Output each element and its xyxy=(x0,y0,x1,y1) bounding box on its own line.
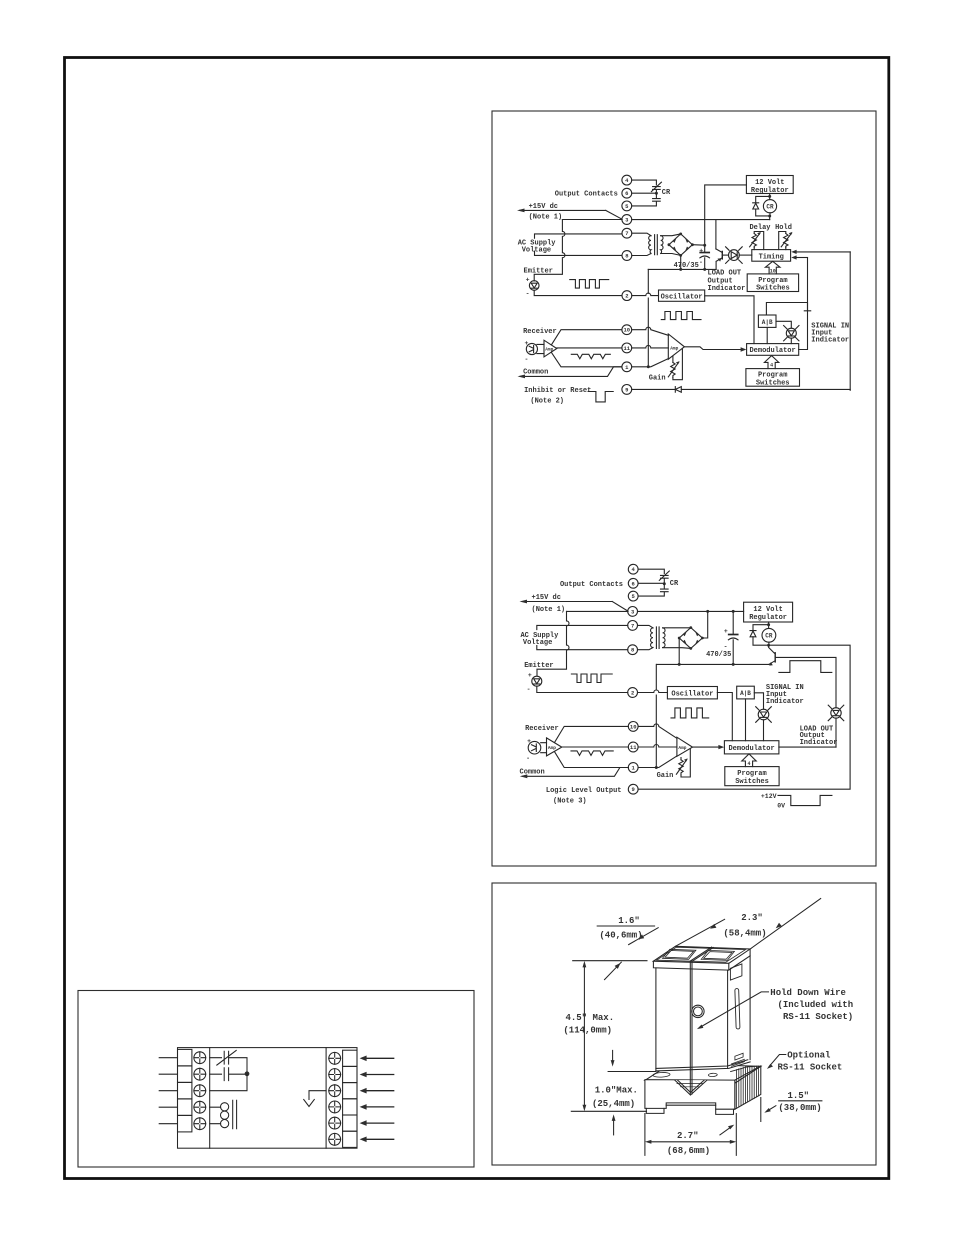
right terminal cell 1 xyxy=(343,1050,357,1066)
svg-text:Program: Program xyxy=(737,770,766,778)
svg-text:2: 2 xyxy=(625,293,628,300)
terminal 6 xyxy=(622,188,632,198)
Program Switches block 3 xyxy=(725,767,779,787)
wire left bus 2 xyxy=(655,664,658,769)
wire receiver outputs 2 xyxy=(555,726,629,767)
svg-text:8: 8 xyxy=(625,253,629,260)
svg-text:Program: Program xyxy=(758,277,787,285)
screw terminal L3 xyxy=(194,1085,206,1097)
potentiometer Gain xyxy=(668,348,682,379)
label CR xyxy=(662,189,671,197)
wire regulator to relay coil xyxy=(768,194,771,200)
emitter waveform 2 xyxy=(571,674,612,683)
hold down wire over top xyxy=(691,947,714,961)
label Receiver xyxy=(525,725,559,733)
wire common with arrow xyxy=(518,367,622,379)
wire amp to demodulator with arrow xyxy=(684,347,746,352)
terminal 10 xyxy=(628,722,638,732)
svg-text:Demodulator: Demodulator xyxy=(749,347,795,355)
socket base top face xyxy=(645,1064,761,1084)
wire +15V with arrow xyxy=(520,600,629,612)
dim 2.3 xyxy=(675,899,820,950)
svg-text:A|B: A|B xyxy=(740,690,751,697)
svg-text:RS-11 Socket: RS-11 Socket xyxy=(778,1062,843,1072)
svg-text:Voltage: Voltage xyxy=(523,639,552,647)
label 1.5 (38,0mm) xyxy=(778,1091,821,1113)
svg-text:Optional: Optional xyxy=(787,1051,831,1061)
module front face xyxy=(653,961,728,1071)
label Logic Level Output xyxy=(546,787,622,806)
ground symbol xyxy=(304,1091,326,1107)
dim 2.7 xyxy=(645,1114,736,1156)
svg-text:(68,6mm): (68,6mm) xyxy=(667,1146,710,1156)
wire amp to demodulator 2 with arrow xyxy=(693,745,725,749)
svg-text:Output Contacts: Output Contacts xyxy=(555,191,618,199)
svg-text:1.6": 1.6" xyxy=(618,916,640,926)
op-amp Amp3 xyxy=(541,738,562,756)
bridge rectifier 2 xyxy=(678,626,704,650)
LED SIGNAL IN indicator 2 xyxy=(754,693,771,741)
+15V dc net label xyxy=(529,203,563,222)
wire receiver outputs xyxy=(552,330,622,367)
A|B select block 2 xyxy=(737,686,755,699)
svg-text:10: 10 xyxy=(630,723,637,730)
svg-text:Indicator: Indicator xyxy=(800,739,838,747)
svg-text:10: 10 xyxy=(770,268,776,274)
input arrow 2 xyxy=(360,1072,394,1078)
svg-text:Regulator: Regulator xyxy=(749,614,787,622)
panel box: block diagram (relay output model) xyxy=(492,111,876,866)
svg-text:Gain: Gain xyxy=(657,772,674,780)
svg-text:5: 5 xyxy=(625,203,629,210)
terminal 2 xyxy=(628,688,638,698)
potentiometer Hold xyxy=(779,232,793,250)
svg-text:9: 9 xyxy=(625,386,628,393)
terminal 9 xyxy=(628,784,638,794)
leader Optional RS-11 Socket xyxy=(767,1055,786,1069)
svg-text:Oscillator: Oscillator xyxy=(671,690,713,698)
+15V dc net label xyxy=(532,594,566,614)
wire demodulator right to indicator chain xyxy=(779,746,836,748)
svg-text:+: + xyxy=(699,248,703,255)
wire oscillator to demodulator xyxy=(705,296,754,344)
terminal 5 xyxy=(628,591,638,601)
screw terminal R5 xyxy=(329,1117,341,1129)
svg-text:(Included with: (Included with xyxy=(778,1000,854,1010)
input arrow 5 xyxy=(360,1120,394,1126)
label AC Supply Voltage xyxy=(520,632,559,647)
label Output Contacts xyxy=(560,581,623,589)
wire T10 T11 T1 to amp 2 xyxy=(638,724,677,768)
phototransistor receiver 2 xyxy=(526,738,541,762)
module top window left xyxy=(663,949,696,959)
left terminal cell 3 xyxy=(178,1082,192,1099)
LED emitter E1 xyxy=(526,276,539,297)
screw terminal L5 xyxy=(194,1118,206,1130)
oscillator waveform xyxy=(661,312,701,320)
svg-text:Indicator: Indicator xyxy=(708,285,746,293)
svg-text:Hold Down Wire: Hold Down Wire xyxy=(770,988,846,998)
svg-text:(Note 1): (Note 1) xyxy=(532,606,566,614)
A|B select block xyxy=(758,315,776,327)
svg-text:CR: CR xyxy=(670,580,679,588)
label Gain 2 xyxy=(657,772,674,780)
terminal 9 xyxy=(622,385,632,395)
svg-text:3: 3 xyxy=(625,217,629,224)
screw terminal L1 xyxy=(194,1052,206,1064)
wire base to indicator xyxy=(775,657,836,707)
terminal 11 xyxy=(622,343,632,353)
svg-text:+: + xyxy=(724,628,728,635)
wire emitter to T2 xyxy=(537,686,628,692)
relay contact NO internal xyxy=(210,1068,245,1081)
wire T8 to transformer xyxy=(632,254,651,256)
label 2.7 (68,6mm) xyxy=(667,1131,710,1156)
wire bus to emitter xyxy=(537,611,569,676)
wire T4 to contact xyxy=(638,569,664,573)
label Hold Down Wire xyxy=(770,988,853,1022)
svg-text:470/35: 470/35 xyxy=(706,651,731,659)
terminal 4 xyxy=(628,564,638,574)
panel box: dimension drawing xyxy=(492,883,876,1165)
junction dot xyxy=(663,582,666,585)
svg-text:7: 7 xyxy=(631,622,634,629)
LED LOAD OUT indicator 2 xyxy=(828,705,844,747)
Demodulator block 2 xyxy=(724,741,779,754)
wire T2 to oscillator 2 xyxy=(638,690,668,693)
svg-text:9: 9 xyxy=(632,786,635,793)
input arrow 6 xyxy=(360,1137,394,1143)
wire right bus B to demodulator xyxy=(799,258,808,350)
junction dot xyxy=(245,1071,250,1076)
svg-text:-: - xyxy=(527,686,531,693)
label AC Supply Voltage xyxy=(518,240,557,255)
svg-text:Emitter: Emitter xyxy=(524,662,553,670)
svg-text:470/35: 470/35 xyxy=(674,262,699,270)
screw terminal R1 xyxy=(329,1052,341,1064)
module right face xyxy=(729,949,750,1068)
terminal 7 xyxy=(622,228,632,238)
module side latch xyxy=(732,1053,745,1066)
12 Volt Regulator U1 xyxy=(746,176,793,195)
wire transformer to bridge top xyxy=(661,234,681,236)
svg-text:CR: CR xyxy=(662,189,671,197)
svg-text:Amp: Amp xyxy=(548,745,556,751)
logic level waveform xyxy=(761,793,832,810)
LED LOAD OUT indicator xyxy=(722,247,752,264)
svg-text:1: 1 xyxy=(632,765,636,772)
svg-text:11: 11 xyxy=(623,345,630,352)
svg-text:Output Contacts: Output Contacts xyxy=(560,581,623,589)
screw terminal L4 xyxy=(194,1101,206,1113)
op-amp Amp1 xyxy=(537,340,557,357)
svg-text:(25,4mm): (25,4mm) xyxy=(592,1099,635,1109)
screw terminal R2 xyxy=(329,1069,341,1081)
svg-text:Common: Common xyxy=(523,368,548,376)
terminal 3 xyxy=(628,607,638,617)
wire relay node down to transistor xyxy=(715,220,717,249)
wire collector node to logic output bus xyxy=(638,645,850,789)
wire A|B to demodulator xyxy=(766,327,768,343)
12 Volt Regulator U2 xyxy=(744,602,793,622)
label Receiver xyxy=(523,328,557,336)
wire transformer to bridge xyxy=(663,628,691,649)
diode D2 inhibit xyxy=(675,387,850,393)
svg-text:10: 10 xyxy=(623,327,630,334)
socket body outline xyxy=(178,1048,358,1149)
socket top face arcs xyxy=(653,1072,717,1077)
svg-text:CR: CR xyxy=(766,203,774,210)
wire right bus A xyxy=(849,252,851,390)
program bus arrow 4 xyxy=(764,356,778,369)
wire left bus xyxy=(647,269,650,368)
wire A|B to demodulator 2 xyxy=(745,699,747,741)
svg-text:4: 4 xyxy=(632,566,636,573)
transistor Q1 xyxy=(716,249,722,270)
left terminal cell 5 xyxy=(178,1115,192,1132)
Program Switches block 2 xyxy=(746,369,800,388)
wire T7 to transformer xyxy=(638,625,654,628)
terminal 1 xyxy=(628,763,638,773)
svg-text:Delay: Delay xyxy=(749,224,771,232)
svg-text:4.5" Max.: 4.5" Max. xyxy=(565,1013,614,1023)
module bottom edges xyxy=(656,1060,750,1071)
terminal 2 xyxy=(622,291,632,301)
label LOAD OUT Output Indicator xyxy=(708,270,746,293)
screw terminal R3 xyxy=(329,1085,341,1097)
transformer T2 xyxy=(651,627,666,649)
dim 1.6 xyxy=(597,926,658,980)
capacitor C1 470/35 xyxy=(699,245,710,269)
phototransistor receiver xyxy=(524,340,537,363)
wire T3 left xyxy=(562,219,622,221)
svg-text:Switches: Switches xyxy=(756,379,790,387)
wire bridge to minus rail xyxy=(678,638,680,664)
svg-text:A|B: A|B xyxy=(762,319,773,326)
wire emitter to T2 xyxy=(534,290,622,295)
wire T9 to diode xyxy=(632,388,676,390)
module side label window xyxy=(730,964,742,980)
svg-text:Receiver: Receiver xyxy=(523,328,557,336)
label Emitter xyxy=(524,267,553,275)
relay coil CR xyxy=(763,200,776,213)
svg-text:4: 4 xyxy=(625,177,629,184)
svg-text:Demodulator: Demodulator xyxy=(728,745,774,753)
right terminal cell 2 xyxy=(343,1066,357,1082)
svg-text:Indicator: Indicator xyxy=(766,698,804,706)
input arrow 1 xyxy=(360,1056,394,1062)
svg-text:Hold: Hold xyxy=(775,224,792,232)
left terminal cell 4 xyxy=(178,1099,192,1116)
module body edges xyxy=(656,956,750,1071)
svg-text:Amp: Amp xyxy=(545,346,553,352)
AC supply bracket xyxy=(537,625,628,649)
svg-text:Receiver: Receiver xyxy=(525,725,559,733)
wire T2 to oscillator xyxy=(632,293,659,296)
Program Switches block 1 xyxy=(747,274,798,293)
Oscillator block xyxy=(659,290,705,302)
terminal 10 xyxy=(622,325,632,335)
label 4.5 Max (114,0mm) xyxy=(563,1013,614,1035)
terminal 6 xyxy=(628,578,638,588)
left lead wires xyxy=(159,1058,177,1124)
label Output Contacts xyxy=(555,191,618,199)
wire T8 to transformer xyxy=(638,648,654,650)
wire minus rail xyxy=(648,255,716,271)
socket base front face xyxy=(645,1080,735,1110)
wire minus rail 2 xyxy=(657,663,770,666)
wire T6 to contact xyxy=(638,582,663,584)
label SIGNAL IN Input Indicator xyxy=(811,322,849,344)
left terminal cell 1 xyxy=(178,1049,192,1066)
left terminal cell 2 xyxy=(178,1066,192,1083)
svg-text:RS-11 Socket): RS-11 Socket) xyxy=(783,1012,853,1022)
flyback diode D1 xyxy=(753,196,772,219)
svg-text:Emitter: Emitter xyxy=(524,267,553,275)
bridge rectifier xyxy=(668,233,694,257)
wire common with arrow 2 xyxy=(520,768,629,779)
module side slot xyxy=(735,989,740,1029)
svg-text:Logic Level Output: Logic Level Output xyxy=(546,787,622,795)
program bus arrow 10 xyxy=(765,261,780,274)
received signal waveform 2 xyxy=(571,751,613,756)
svg-text:2.7": 2.7" xyxy=(677,1131,699,1141)
op-amp Amp4 xyxy=(677,737,693,756)
relay contact NC internal xyxy=(210,1050,247,1071)
junction dot xyxy=(655,192,658,195)
wire T3 left xyxy=(567,610,628,612)
svg-text:1.5": 1.5" xyxy=(787,1091,809,1101)
svg-text:2.3": 2.3" xyxy=(741,913,763,923)
screw terminal R4 xyxy=(329,1101,341,1113)
svg-text:Amp: Amp xyxy=(670,345,678,351)
relay coil internal xyxy=(210,1100,237,1128)
terminal 5 xyxy=(622,201,632,211)
svg-text:Amp: Amp xyxy=(678,745,686,751)
received signal waveform xyxy=(571,354,610,359)
relay contact CR normally-closed xyxy=(651,182,661,193)
wire T4 to contact xyxy=(632,180,657,185)
socket contact hatching xyxy=(731,1066,759,1108)
relay coil CR 2 xyxy=(762,628,776,642)
svg-text:(38,0mm): (38,0mm) xyxy=(778,1103,821,1113)
program bus arrow 4 xyxy=(742,754,756,767)
svg-text:6: 6 xyxy=(632,580,635,587)
svg-text:-: - xyxy=(724,644,728,651)
svg-text:Common: Common xyxy=(520,768,545,776)
svg-text:12 Volt: 12 Volt xyxy=(753,606,782,614)
socket base right face xyxy=(735,1066,761,1109)
module cap band xyxy=(653,949,750,970)
svg-text:6: 6 xyxy=(625,190,628,197)
panel box: socket wiring diagram xyxy=(78,991,474,1168)
svg-text:(58,4mm): (58,4mm) xyxy=(723,928,766,938)
wire oscillator to demodulator 2 xyxy=(717,693,732,741)
labels Delay Hold xyxy=(749,224,791,232)
relay contact CR normally-closed xyxy=(659,571,669,584)
dim 1.5 xyxy=(761,1098,822,1122)
wire T7 to transformer xyxy=(632,233,651,236)
hold down wire front xyxy=(690,961,692,1094)
wire T3 right to relay node xyxy=(632,219,770,221)
svg-text:-: - xyxy=(524,356,528,363)
svg-text:Program: Program xyxy=(758,372,787,380)
svg-text:Switches: Switches xyxy=(735,778,769,786)
terminal 4 xyxy=(622,175,632,185)
AC supply bracket xyxy=(535,234,622,256)
value 470/35 xyxy=(674,262,699,270)
potentiometer Gain 2 xyxy=(676,749,690,777)
Demodulator block xyxy=(747,344,799,356)
Oscillator block 2 xyxy=(667,687,717,699)
svg-text:Oscillator: Oscillator xyxy=(661,294,703,302)
transistor Q2 xyxy=(769,645,776,665)
svg-text:Switches: Switches xyxy=(756,285,790,293)
svg-text:4: 4 xyxy=(770,363,773,369)
input arrow 3 xyxy=(360,1088,394,1094)
svg-text:+: + xyxy=(526,276,530,283)
inhibit waveform xyxy=(588,392,613,402)
hold down wire V spring xyxy=(675,1080,707,1095)
svg-text:+12V: +12V xyxy=(761,793,777,800)
oscillator waveform 2 xyxy=(671,708,709,718)
label Optional RS-11 Socket xyxy=(778,1051,843,1073)
output pulse waveform xyxy=(779,661,832,673)
terminal 1 xyxy=(622,362,632,372)
label 1.0 Max (25,4mm) xyxy=(592,1085,638,1109)
svg-text:5: 5 xyxy=(632,593,636,600)
wire T10 T11 T1 to amp xyxy=(632,327,669,367)
svg-text:0V: 0V xyxy=(777,802,785,809)
svg-text:-: - xyxy=(699,259,703,266)
label SIGNAL IN Input Indicator xyxy=(766,684,804,706)
relay contact CR normally-open xyxy=(632,193,661,206)
svg-text:(Note 2): (Note 2) xyxy=(530,397,564,405)
transformer T1 xyxy=(649,235,663,255)
svg-text:8: 8 xyxy=(631,647,635,654)
svg-text:+: + xyxy=(527,738,531,745)
right terminal cell 4 xyxy=(343,1099,357,1115)
module top rim xyxy=(657,947,746,962)
terminal 3 xyxy=(622,215,632,225)
label 1.6 (40,6mm) xyxy=(599,916,642,941)
svg-text:11: 11 xyxy=(630,744,637,751)
svg-text:-: - xyxy=(526,290,530,297)
Timing block xyxy=(752,250,791,262)
potentiometer Delay xyxy=(750,232,764,250)
svg-text:(114,0mm): (114,0mm) xyxy=(563,1026,612,1036)
page border frame xyxy=(65,58,889,1179)
wire +15V with arrow xyxy=(517,209,622,220)
svg-text:1: 1 xyxy=(625,364,629,371)
wire common pole xyxy=(210,1074,247,1091)
svg-text:Inhibit or Reset: Inhibit or Reset xyxy=(524,387,591,395)
module top face xyxy=(653,946,750,963)
svg-text:+: + xyxy=(528,672,532,679)
right terminal cell 5 xyxy=(343,1115,357,1131)
label Inhibit or Reset xyxy=(524,387,591,406)
flyback diode D3 xyxy=(750,625,770,647)
wire bridge to +15 line xyxy=(702,611,707,638)
terminal 11 xyxy=(628,742,638,752)
op-amp Amp2 xyxy=(668,334,684,359)
wire T3 right to regulator xyxy=(638,610,744,613)
input arrow 4 xyxy=(360,1104,394,1110)
socket feet xyxy=(646,1108,733,1114)
label Common xyxy=(520,768,545,776)
svg-text:Timing: Timing xyxy=(759,253,784,261)
LED SIGNAL IN indicator xyxy=(776,321,799,343)
